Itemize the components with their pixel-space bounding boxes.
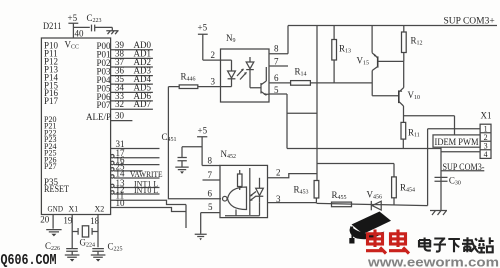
logo red bug character 2 — [389, 230, 409, 254]
svg-text:2: 2 — [276, 168, 281, 178]
optocoupler N452 — [220, 149, 268, 218]
+5 supply to N452 pin 8 — [197, 126, 220, 166]
transistor V10 — [399, 61, 420, 122]
svg-text:D211: D211 — [43, 21, 62, 31]
+5 supply to N9 pin 2 — [198, 23, 221, 61]
svg-text:8: 8 — [274, 44, 279, 54]
capacitor C225 — [92, 242, 122, 255]
svg-text:+5: +5 — [68, 13, 78, 23]
pin 11 — [111, 191, 186, 205]
wire V10 to X1 pin 2 — [404, 116, 455, 135]
net SUP COM3+ rail — [288, 17, 497, 27]
ground (C223, earth) — [106, 31, 118, 34]
crystal G224 — [78, 226, 95, 249]
svg-text:N452: N452 — [221, 149, 237, 160]
wire X1 pin4 / SUP COM3- — [441, 147, 480, 210]
svg-text:Q606.COM: Q606.COM — [1, 253, 57, 268]
wire R453 top to R454 top — [317, 164, 394, 177]
svg-text:RESET: RESET — [44, 184, 69, 194]
wire R446 to N452 pin6 — [168, 87, 221, 199]
svg-text:R13: R13 — [339, 44, 351, 55]
svg-text:19: 19 — [63, 216, 73, 226]
pin 12 INT0 L — [111, 184, 160, 194]
svg-text:V10: V10 — [408, 90, 421, 101]
svg-text:3: 3 — [211, 77, 216, 87]
svg-text:X1: X1 — [481, 111, 492, 121]
net label SUP COM3- — [441, 162, 485, 172]
pin 19 wire (X1 xtal) — [63, 215, 78, 249]
transistor V15 — [357, 26, 404, 96]
N9 pin 8 wire — [269, 26, 288, 54]
pin 39 AD0 — [97, 40, 153, 51]
logo mortarboard (black cap) — [349, 212, 391, 244]
N452 pin 5 wire to ground — [201, 202, 220, 234]
svg-text:AD7: AD7 — [134, 99, 152, 109]
label IDEM PWM — [433, 135, 480, 147]
pin 30 ALE/P — [86, 111, 132, 122]
svg-text:C225: C225 — [108, 242, 123, 253]
pin 33 AD6 — [97, 91, 153, 102]
svg-text:R12: R12 — [411, 36, 423, 47]
ground (C225) — [91, 255, 106, 262]
svg-text:R455: R455 — [332, 190, 347, 201]
svg-text:R446: R446 — [181, 72, 196, 83]
N9 pin 7 stub — [269, 57, 288, 67]
svg-text:4: 4 — [484, 150, 488, 159]
svg-text:5: 5 — [274, 85, 279, 95]
svg-text:7: 7 — [274, 57, 279, 67]
svg-text:5: 5 — [208, 202, 213, 212]
svg-text:C223: C223 — [87, 13, 102, 24]
resistor R14 — [291, 67, 373, 86]
pin 25 — [111, 161, 143, 171]
N452 pin 3 wire / net to R455 V456 — [268, 194, 428, 206]
pin 34 AD5 — [97, 82, 153, 93]
wire N9 pin5 net loop — [287, 113, 441, 148]
svg-text:R11: R11 — [408, 128, 420, 139]
resistor R12 — [402, 26, 423, 62]
pin 38 AD1 — [97, 48, 153, 59]
pin 17 — [111, 148, 160, 158]
svg-text:7: 7 — [208, 170, 213, 180]
resistor R446 — [168, 72, 220, 89]
resistor R455 — [332, 190, 352, 207]
svg-text:IDEM PWM: IDEM PWM — [435, 137, 479, 147]
svg-text:G224: G224 — [80, 237, 96, 248]
capacitor C226 — [45, 241, 78, 255]
wire rail to R453 (long vertical) — [316, 26, 318, 181]
svg-text:6: 6 — [274, 73, 279, 83]
svg-text:R453: R453 — [294, 185, 309, 196]
pin 16 — [111, 155, 160, 165]
svg-text:V456: V456 — [367, 190, 383, 201]
pin 13 INT1 L — [111, 178, 160, 188]
N9 pin 5 wire — [269, 85, 287, 149]
svg-text:C30: C30 — [449, 176, 461, 187]
ground (pin 20) — [46, 230, 61, 237]
pin 36 AD3 — [97, 66, 153, 77]
N452 pin 2 wire — [268, 168, 318, 178]
svg-text:8: 8 — [208, 156, 213, 166]
svg-text:P07: P07 — [97, 100, 112, 110]
svg-text:X1: X1 — [69, 204, 79, 213]
IC U1 D211 body — [41, 21, 110, 215]
svg-text:P27: P27 — [44, 162, 56, 171]
IC D211 left pin labels P20-P27 — [44, 115, 56, 171]
svg-text:40: 40 — [75, 29, 85, 39]
pin 32 AD7 — [97, 99, 153, 110]
svg-text:30: 30 — [115, 111, 125, 121]
wire X1 pin1 — [428, 129, 481, 206]
ground (C226) — [65, 255, 80, 262]
svg-text:+5: +5 — [198, 23, 208, 33]
svg-text:20: 20 — [40, 215, 50, 225]
capacitor C30 — [435, 176, 461, 187]
optocoupler N9 — [221, 33, 270, 102]
pin 14 VAWRITE — [111, 168, 163, 178]
connector X1 — [480, 111, 491, 160]
pin 20 wire — [40, 215, 53, 229]
pin 18 wire (X2 xtal) — [90, 215, 100, 248]
pin 35 AD4 — [97, 74, 153, 85]
resistor R11 — [401, 122, 420, 148]
capacitor C451 — [162, 132, 203, 167]
svg-text:P17: P17 — [44, 96, 59, 106]
svg-text:+5: +5 — [198, 126, 208, 136]
diode V456 — [367, 190, 383, 211]
ground (N452 pin 5) — [195, 234, 207, 240]
svg-text:R14: R14 — [295, 67, 307, 78]
svg-text:14: 14 — [116, 168, 126, 178]
IC D211 bottom pin labels GND X1 X2 — [48, 204, 105, 213]
svg-text:6: 6 — [208, 189, 213, 199]
IC D211 left pin labels P10-P17 — [44, 41, 59, 107]
svg-text:X2: X2 — [95, 204, 105, 213]
resistor R454 — [392, 177, 415, 205]
pin 37 AD2 — [97, 57, 153, 68]
capacitor C223 — [87, 13, 113, 31]
ground (C30, earth) — [430, 211, 447, 216]
svg-text:VCC: VCC — [65, 40, 80, 51]
resistor R453 — [294, 181, 319, 204]
N452 pin 7 stub — [203, 170, 221, 180]
+5 supply to pin 40 — [68, 13, 90, 38]
ground (C451) — [175, 167, 188, 174]
logo red bug character 1 — [366, 230, 386, 254]
svg-text:2: 2 — [211, 50, 216, 60]
svg-text:R454: R454 — [400, 183, 415, 194]
N9 pin 6 wire to R14 — [269, 73, 291, 83]
svg-text:V15: V15 — [357, 56, 370, 67]
svg-text:ALE/P: ALE/P — [86, 112, 111, 122]
pin 31 — [111, 139, 160, 149]
svg-text:www.eeworm.com: www.eeworm.com — [367, 255, 499, 268]
resistor R13 — [332, 26, 351, 83]
pin 10 — [111, 198, 186, 228]
svg-text:N9: N9 — [226, 33, 236, 44]
svg-text:C226: C226 — [45, 241, 60, 252]
svg-text:32: 32 — [115, 99, 124, 109]
svg-text:10: 10 — [116, 198, 126, 208]
svg-text:GND: GND — [48, 204, 64, 213]
logo text 电子下载站 (drawn strokes) — [419, 237, 494, 252]
